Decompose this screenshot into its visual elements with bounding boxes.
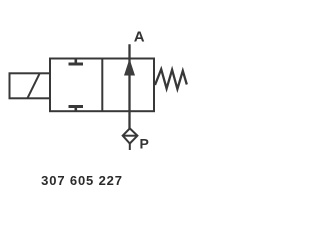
svg-text:P: P — [140, 136, 149, 152]
svg-text:307 605 227: 307 605 227 — [41, 173, 123, 188]
wire: port A line and flow path — [128, 44, 130, 128]
wire: port P stub — [129, 144, 131, 151]
blocked port T (top of left box) — [69, 59, 84, 65]
spring (return) — [155, 69, 187, 89]
svg-text:A: A — [134, 28, 145, 45]
flow arrow head — [124, 59, 135, 76]
blocked port T (bottom of left box) — [69, 107, 84, 112]
valve body (two position boxes) — [50, 59, 154, 112]
solenoid actuator — [10, 73, 51, 98]
position divider — [101, 59, 103, 112]
check valve diamond at P — [123, 128, 138, 143]
